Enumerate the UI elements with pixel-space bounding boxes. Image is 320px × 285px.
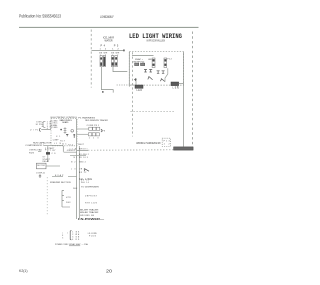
svg-text:GROUND GN: GROUND GN <box>80 215 95 217</box>
svg-text:RUN: RUN <box>29 152 35 154</box>
svg-text:LED: LED <box>137 90 143 92</box>
svg-text:P5: P5 <box>114 44 119 47</box>
svg-text:COMPRESSOR 1: COMPRESSOR 1 <box>25 145 45 147</box>
svg-text:RLY: RLY <box>60 141 65 143</box>
svg-text:WH-BK TRACER: WH-BK TRACER <box>80 211 99 214</box>
svg-text:Publication No: 5995545023: Publication No: 5995545023 <box>19 14 62 19</box>
connector J1 wire stubs <box>42 122 44 126</box>
freezer compartment dashed box <box>46 177 48 215</box>
dotted wire into lamp LED2 <box>117 84 135 86</box>
ground <box>39 174 41 177</box>
wire from board bottom <box>62 146 64 152</box>
svg-text:BOARD: BOARD <box>62 121 69 124</box>
connector J2 bracket <box>40 128 41 131</box>
svg-text:UI P2: UI P2 <box>36 124 43 126</box>
svg-text:OVERLOAD: OVERLOAD <box>29 149 43 152</box>
snap switch block 2 <box>141 63 145 66</box>
svg-text:NEUT: NEUT <box>78 144 84 146</box>
relay K2 pin <box>73 134 75 138</box>
svg-text:WATER: WATER <box>105 39 113 42</box>
svg-text:LGHB2869LF: LGHB2869LF <box>100 14 114 19</box>
polarity mark <box>134 78 137 81</box>
LED module box <box>129 52 183 85</box>
return bus wire <box>78 146 80 219</box>
relay contact symbol <box>71 130 74 133</box>
wire from header P12 down to lamp LED3 <box>165 68 168 82</box>
svg-text:HTR: HTR <box>66 197 71 199</box>
start relay wire <box>47 146 49 162</box>
svg-text:MOTOR: MOTOR <box>37 165 45 167</box>
svg-text:LED: LED <box>173 88 180 90</box>
svg-text:ELECTRONIC CONTROL: ELECTRONIC CONTROL <box>51 117 78 119</box>
svg-text:COMP-A: COMP-A <box>36 171 45 174</box>
wire bus to LED section <box>92 49 125 51</box>
wire lamp LED3 to right edge <box>179 82 184 84</box>
wire to lamp LED2 <box>135 78 137 85</box>
svg-text:P13: P13 <box>164 141 171 143</box>
svg-text:IN RF DOOR MULLION: IN RF DOOR MULLION <box>147 40 166 43</box>
svg-text:5 START: 5 START <box>45 147 55 150</box>
led arrow symbol <box>160 78 165 81</box>
board internal mark <box>66 134 68 136</box>
shelf dotted line <box>131 111 176 113</box>
defrost heater element <box>62 190 70 207</box>
diode D2 <box>149 70 152 73</box>
svg-text:P8: P8 <box>102 131 105 133</box>
svg-text:WH 18 1: WH 18 1 <box>79 149 88 151</box>
svg-text:RD 16 3: RD 16 3 <box>79 157 88 159</box>
svg-text:HTR 120V: HTR 120V <box>85 202 98 204</box>
wire stub below lamp LED3 <box>176 86 178 88</box>
connector P4 housing <box>100 56 106 67</box>
wire to door harness <box>77 150 88 152</box>
main control board box <box>51 119 77 146</box>
relay coil symbol <box>64 127 67 134</box>
dotted wire run <box>88 149 174 151</box>
svg-text:GND 4: GND 4 <box>79 161 86 163</box>
svg-text:DEFROST: DEFROST <box>85 195 98 197</box>
svg-text:BK-WH TRACER: BK-WH TRACER <box>80 208 99 211</box>
connector P8 row 1 <box>89 127 100 130</box>
svg-text:FREEZER SECTION: FREEZER SECTION <box>50 182 71 184</box>
svg-text:OR 4: OR 4 <box>79 168 85 170</box>
defrost section top wire <box>52 176 63 178</box>
led arrow symbol <box>148 76 153 80</box>
svg-text:SNAP +: SNAP + <box>135 58 144 61</box>
pin header P12 <box>164 58 167 68</box>
transistor Q1 <box>60 129 62 131</box>
svg-text:RUN CAPACITOR: RUN CAPACITOR <box>33 142 52 145</box>
LED box left edge <box>128 52 130 87</box>
connector P8 row 2 <box>88 133 99 136</box>
svg-text:LD CORD: LD CORD <box>88 233 98 235</box>
main bus wire <box>76 119 78 219</box>
wire board to P8 <box>77 128 89 130</box>
svg-text:L1 N: L1 N <box>54 143 61 145</box>
svg-text:N1: N1 <box>74 157 78 159</box>
harness connector bracket <box>70 230 71 240</box>
svg-text:CONN P8 1: CONN P8 1 <box>87 125 100 127</box>
connector P8 right label <box>101 129 102 132</box>
lamp LED2 <box>135 85 143 88</box>
svg-text:WH 14: WH 14 <box>81 182 89 184</box>
wire <box>44 144 63 146</box>
svg-text:1 2 3: 1 2 3 <box>89 137 99 139</box>
svg-text:— 15A: — 15A <box>82 243 89 246</box>
svg-text:TO DISPENSER: TO DISPENSER <box>81 187 100 189</box>
pin header P11 <box>152 58 155 68</box>
bus crossing wire <box>70 155 86 157</box>
wire <box>38 151 41 153</box>
protector box <box>36 163 46 169</box>
svg-text:BK-WH 2: BK-WH 2 <box>79 154 89 156</box>
wire from protector <box>46 165 60 167</box>
svg-text:WIRING HARNESS RF: WIRING HARNESS RF <box>136 142 161 145</box>
door cut line (dashed) <box>132 52 134 136</box>
wire into board <box>41 129 51 131</box>
diode D3 <box>157 71 160 74</box>
svg-text:LED: LED <box>148 59 152 61</box>
arrow mark <box>84 169 89 172</box>
connector P13 (dashed) <box>162 138 170 146</box>
header rule <box>19 26 199 28</box>
wire from P4 down <box>102 67 114 93</box>
svg-text:P4: P4 <box>101 44 106 47</box>
diode D4 <box>162 71 165 74</box>
cut line (dashed) left of ice maker section <box>90 30 92 88</box>
svg-text:DISP: DISP <box>36 121 42 123</box>
svg-text:BK 14: BK 14 <box>81 179 89 181</box>
door harness terminal strip <box>174 147 194 150</box>
wire from P5 to LED box <box>113 67 127 72</box>
diode D1 <box>144 70 147 73</box>
svg-text:RED W/WHITE TRACER: RED W/WHITE TRACER <box>85 119 108 122</box>
underline <box>69 245 80 247</box>
svg-text:PLUG: PLUG <box>89 236 97 238</box>
svg-text:DC GND: DC GND <box>50 127 58 129</box>
svg-text:K2(1): K2(1) <box>19 268 28 273</box>
svg-text:LN-POWER—: LN-POWER— <box>78 218 105 221</box>
svg-text:L1 A: L1 A <box>70 148 77 151</box>
lamp LED3 <box>171 82 179 86</box>
snap switch block 1 <box>135 63 139 66</box>
svg-text:P1: P1 <box>35 129 37 131</box>
svg-text:COMP: COMP <box>53 139 59 141</box>
page fold dashed line right <box>191 32 193 152</box>
wire to bus <box>64 151 77 153</box>
wire inside LED box <box>132 54 154 56</box>
svg-text:RELAY: RELAY <box>43 160 50 163</box>
svg-text:UI: UI <box>30 129 34 131</box>
LED box right edge / wire down <box>183 52 185 147</box>
svg-text:BR 12: BR 12 <box>79 172 86 174</box>
connector P5 housing <box>111 56 117 67</box>
wire board to P8 row2 <box>77 133 88 135</box>
node arrow <box>102 91 104 93</box>
connector J1 bracket <box>43 121 45 127</box>
svg-text:4 RD: 4 RD <box>72 239 80 241</box>
svg-text:20: 20 <box>106 268 113 273</box>
svg-text:P10: P10 <box>68 145 73 147</box>
overload device <box>46 152 50 155</box>
